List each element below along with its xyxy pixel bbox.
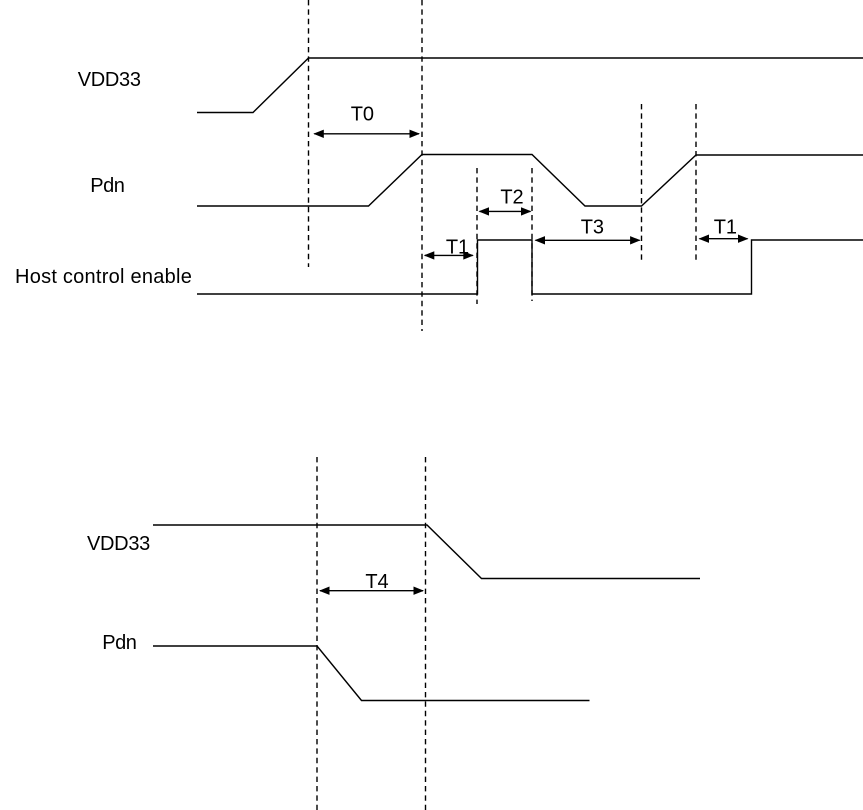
arrow T1 left (double-headed) [424,251,474,259]
svg-text:Pdn: Pdn [90,175,124,197]
dashed guide line at Pdn low end (x=641.5) [641,104,643,262]
wire Pdn waveform (bottom diagram) [153,646,590,701]
dashed guide line at T0 start (x=308.5) [308,0,310,267]
svg-text:T2: T2 [500,187,523,209]
svg-text:T3: T3 [581,217,604,239]
svg-text:VDD33: VDD33 [87,533,150,555]
dashed guide line at T0 end (x=422) [421,0,423,331]
wire VDD33 waveform (top diagram) [197,58,863,113]
wire Pdn waveform (top diagram) [197,155,863,207]
arrow T4 (double-headed) [319,587,424,595]
dashed guide line at T4 end (x=425.5) [425,457,427,810]
wire Host control enable waveform (top diagram) [197,240,863,294]
svg-text:T1: T1 [714,217,737,239]
svg-text:Pdn: Pdn [102,632,136,654]
svg-text:Host control enable: Host control enable [15,266,192,288]
svg-text:T4: T4 [365,571,388,593]
dashed guide line at Pdn high resume (x=696) [695,104,697,261]
dashed guide line at pulse fall (x=532) [531,168,533,301]
arrow T3 (double-headed) [535,236,641,244]
arrow T0 (double-headed) [313,130,420,138]
svg-text:T0: T0 [351,104,374,126]
arrow T1 right (double-headed) [699,235,749,243]
wire VDD33 waveform (bottom diagram) [153,525,700,579]
dashed guide line at pulse rise (x=477) [476,168,478,304]
svg-text:VDD33: VDD33 [78,69,141,91]
svg-text:T1: T1 [446,236,469,258]
arrow T2 (double-headed) [479,207,532,215]
dashed guide line at T4 start (x=317) [316,457,318,810]
